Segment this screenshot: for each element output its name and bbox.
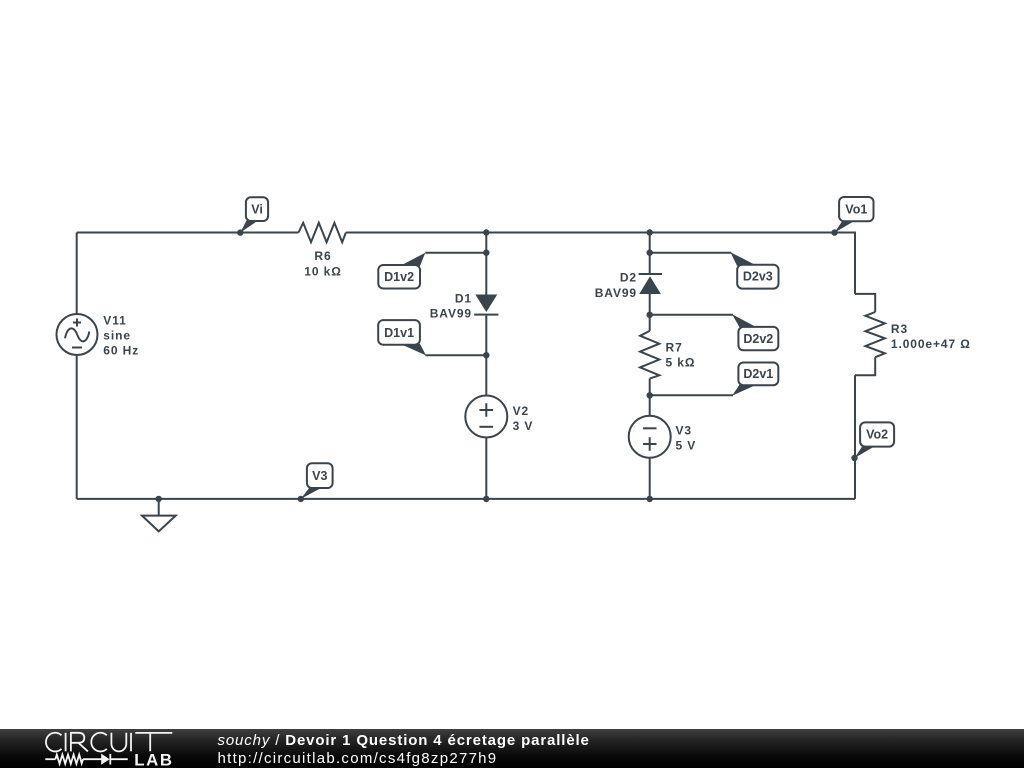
svg-text:10 kΩ: 10 kΩ [304, 265, 341, 279]
svg-text:Vi: Vi [251, 203, 263, 217]
svg-text:V2: V2 [513, 404, 529, 418]
wire middle branch D2/R7/V3 vertical [649, 232, 651, 499]
resistor R3 [855, 294, 875, 312]
node flag D1v2 [378, 253, 425, 289]
svg-text:D2v2: D2v2 [743, 332, 773, 346]
svg-text:souchy / Devoir 1 Question 4 é: souchy / Devoir 1 Question 4 écretage pa… [218, 732, 590, 749]
svg-text:Vo2: Vo2 [866, 428, 888, 442]
wire right rail lower [854, 375, 856, 499]
voltage source V11 [57, 314, 98, 355]
wire middle branch D1/V2 vertical [485, 232, 487, 499]
wire D2v1 stub [650, 394, 733, 396]
svg-text:D2v3: D2v3 [743, 270, 773, 284]
svg-text:V3: V3 [676, 424, 692, 438]
node top junction D2 [647, 229, 653, 235]
node top junction D1 [483, 229, 489, 235]
svg-text:V3: V3 [312, 469, 327, 483]
node flag D2v1 [732, 363, 778, 396]
node flag D2v3 [730, 252, 778, 288]
svg-text:Vo1: Vo1 [845, 202, 867, 216]
svg-text:BAV99: BAV99 [595, 286, 637, 300]
ground [158, 499, 160, 516]
node flag V3 [301, 463, 333, 499]
node Vo1 junction [831, 229, 837, 235]
node D1v2 junction [483, 250, 489, 256]
node Vo2 junction [851, 455, 857, 461]
node flag Vo2 [855, 422, 895, 458]
wire D1v1 stub [425, 354, 486, 356]
node V3 flag junction [298, 496, 304, 502]
node ground junction [156, 496, 162, 502]
diode D1 [475, 295, 497, 313]
svg-text:1.000e+47 Ω: 1.000e+47 Ω [891, 337, 971, 351]
resistor R7 [640, 331, 659, 379]
svg-text:R7: R7 [666, 341, 683, 355]
node flag D1v1 [378, 320, 426, 355]
wire D2v2 stub [650, 314, 733, 316]
svg-text:D1v2: D1v2 [384, 270, 414, 284]
wire right rail upper [854, 232, 856, 294]
svg-text:BAV99: BAV99 [430, 306, 472, 320]
node flag Vo1 [835, 197, 874, 233]
node bottom junction V3 [647, 496, 653, 502]
node D2v2 junction [647, 312, 653, 318]
wire bottom rail [77, 498, 855, 500]
node Vi junction [237, 229, 243, 235]
svg-text:http://circuitlab.com/cs4fg8zp: http://circuitlab.com/cs4fg8zp277h9 [218, 750, 498, 767]
svg-text:5 kΩ: 5 kΩ [666, 356, 696, 370]
voltage source V3 [629, 416, 671, 458]
node bottom junction V2 [483, 496, 489, 502]
svg-text:D2: D2 [620, 270, 637, 284]
wire D1v2 stub [425, 252, 486, 254]
logo diode triangle [101, 754, 109, 765]
svg-text:5 V: 5 V [676, 439, 697, 453]
svg-text:D2v1: D2v1 [743, 367, 773, 381]
svg-text:V11: V11 [103, 313, 126, 327]
svg-text:D1: D1 [455, 291, 472, 305]
node D2v1 junction [647, 392, 653, 398]
svg-text:60 Hz: 60 Hz [103, 343, 139, 357]
node flag Vi [240, 197, 268, 232]
logo wordmark CIRCUIT [46, 733, 172, 752]
svg-text:LAB: LAB [134, 751, 173, 768]
wire left rail [76, 233, 78, 499]
wire top rail Vi to Vo1 corner [77, 232, 855, 234]
resistor R6 [299, 223, 346, 242]
node flag D2v2 [732, 314, 778, 350]
node D2v3 junction [647, 250, 653, 256]
voltage source V2 [465, 396, 507, 438]
node D1v1 junction [483, 352, 489, 358]
footer bar [0, 729, 1024, 768]
svg-text:R3: R3 [891, 322, 908, 336]
logo resistor-diode glyph [45, 754, 128, 765]
svg-text:R6: R6 [314, 249, 331, 263]
diode D2 [639, 273, 662, 275]
wire D2v3 stub [650, 252, 732, 254]
svg-text:D1v1: D1v1 [384, 326, 414, 340]
svg-text:3 V: 3 V [513, 419, 534, 433]
svg-text:sine: sine [103, 328, 131, 342]
